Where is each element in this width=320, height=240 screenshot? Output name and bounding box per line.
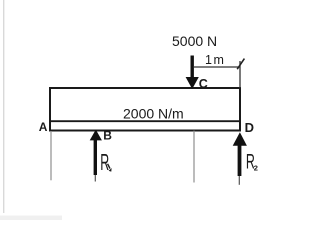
svg-text:D: D [245,120,254,135]
svg-text:1m: 1m [205,53,225,67]
svg-text:5000 N: 5000 N [172,33,217,49]
svg-text:A: A [39,120,48,134]
svg-text:C: C [199,77,208,91]
svg-text:R: R [100,149,109,175]
svg-text:B: B [103,129,112,143]
svg-text:2: 2 [254,164,258,173]
svg-text:2000 N/m: 2000 N/m [123,106,184,122]
